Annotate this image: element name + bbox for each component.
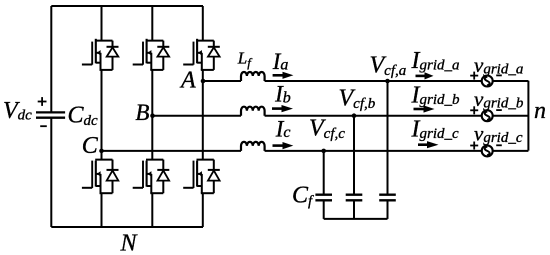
svg-text:A: A <box>179 67 196 93</box>
svg-text:B: B <box>135 100 149 125</box>
svg-text:C: C <box>82 133 99 159</box>
svg-text:N: N <box>120 230 139 255</box>
svg-text:n: n <box>534 98 546 124</box>
